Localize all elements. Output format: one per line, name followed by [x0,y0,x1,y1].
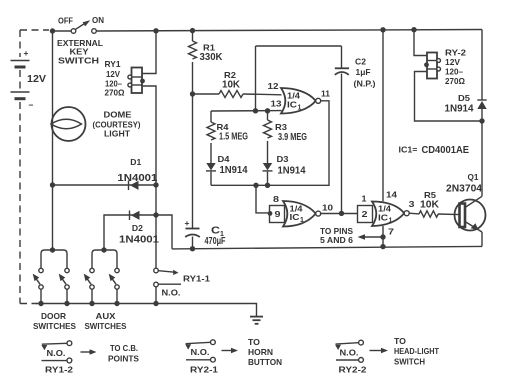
svg-text:SWITCH: SWITCH [58,56,99,66]
svg-text:BUTTON: BUTTON [248,357,282,367]
svg-text:RY1-1: RY1-1 [183,273,210,283]
svg-text:HEAD-LIGHT: HEAD-LIGHT [394,346,440,356]
svg-text:D4: D4 [218,154,230,164]
svg-text:1N914: 1N914 [220,165,248,176]
svg-text:POINTS: POINTS [108,354,139,364]
svg-text:LIGHT: LIGHT [104,128,131,138]
svg-text:−: − [29,100,34,110]
svg-text:3: 3 [409,199,415,209]
svg-text:14: 14 [386,190,397,200]
svg-text:SWITCHES: SWITCHES [33,321,76,331]
svg-text:10: 10 [322,203,333,213]
svg-text:TO C.B.: TO C.B. [110,343,138,353]
svg-text:ON: ON [92,15,104,25]
svg-text:2: 2 [362,209,368,219]
svg-text:R3: R3 [275,122,287,132]
svg-text:SWITCHES: SWITCHES [85,321,127,331]
svg-text:470μF: 470μF [205,236,226,247]
svg-text:D1: D1 [130,157,141,167]
svg-text:D2: D2 [132,223,143,233]
svg-text:RY2-2: RY2-2 [339,365,367,375]
svg-text:IC: IC [290,212,300,222]
svg-text:C2: C2 [355,57,366,67]
svg-text:AUX: AUX [96,311,116,321]
svg-text:TO: TO [394,336,406,346]
svg-text:D3: D3 [277,154,289,164]
svg-text:HORN: HORN [248,347,273,357]
svg-text:2N3704: 2N3704 [446,184,482,195]
svg-text:N.O.: N.O. [340,348,359,358]
svg-text:SWITCH: SWITCH [394,357,425,367]
svg-text:IC: IC [287,99,297,109]
svg-text:1: 1 [300,217,304,224]
svg-text:RY1: RY1 [105,59,121,69]
svg-text:R2: R2 [224,70,236,80]
svg-text:1N4001: 1N4001 [117,173,157,184]
svg-text:RY1-2: RY1-2 [45,365,73,375]
svg-text:330K: 330K [200,52,224,63]
svg-text:5 AND 6: 5 AND 6 [320,235,353,245]
svg-text:R5: R5 [424,190,436,200]
svg-text:1: 1 [362,193,367,203]
svg-text:OFF: OFF [58,16,73,26]
svg-text:R4: R4 [217,122,229,132]
svg-text:1.5 MEG: 1.5 MEG [219,132,248,143]
svg-text:8: 8 [273,194,279,204]
svg-text:RY-2: RY-2 [445,47,466,57]
svg-text:1: 1 [298,105,302,112]
svg-text:1μF: 1μF [356,67,371,77]
svg-text:1: 1 [389,218,393,225]
svg-text:TO: TO [248,337,260,347]
svg-text:12V: 12V [106,69,120,79]
svg-text:(N.P.): (N.P.) [354,79,376,89]
svg-text:N.O.: N.O. [47,348,66,358]
svg-text:CD4001AE: CD4001AE [422,145,470,156]
svg-text:N.O.: N.O. [162,288,181,298]
svg-text:DOOR: DOOR [41,311,66,321]
svg-text:270Ω: 270Ω [445,76,465,86]
svg-text:9: 9 [275,209,281,219]
svg-text:1N4001: 1N4001 [119,234,159,245]
svg-text:Q1: Q1 [468,172,479,182]
svg-text:IC: IC [378,212,388,222]
svg-text:270Ω: 270Ω [105,88,125,98]
svg-text:+: + [24,48,29,58]
svg-text:12V: 12V [27,74,46,85]
svg-text:12: 12 [268,81,279,91]
svg-text:11: 11 [321,89,330,99]
svg-text:+: + [185,218,190,228]
svg-text:D5: D5 [458,93,470,103]
svg-text:N.O.: N.O. [191,347,210,357]
svg-text:DOME: DOME [104,110,132,120]
svg-text:IC1=: IC1= [399,144,418,154]
svg-text:120–: 120– [445,67,463,77]
svg-text:7: 7 [388,226,394,236]
svg-text:1N914: 1N914 [445,103,474,114]
svg-text:10K: 10K [420,199,440,210]
svg-text:1N914: 1N914 [278,165,306,176]
svg-text:10K: 10K [222,80,241,91]
svg-text:RY2-1: RY2-1 [190,365,218,375]
svg-text:12V: 12V [445,57,460,67]
svg-text:3.9 MEG: 3.9 MEG [278,132,307,143]
svg-text:13: 13 [271,98,282,108]
